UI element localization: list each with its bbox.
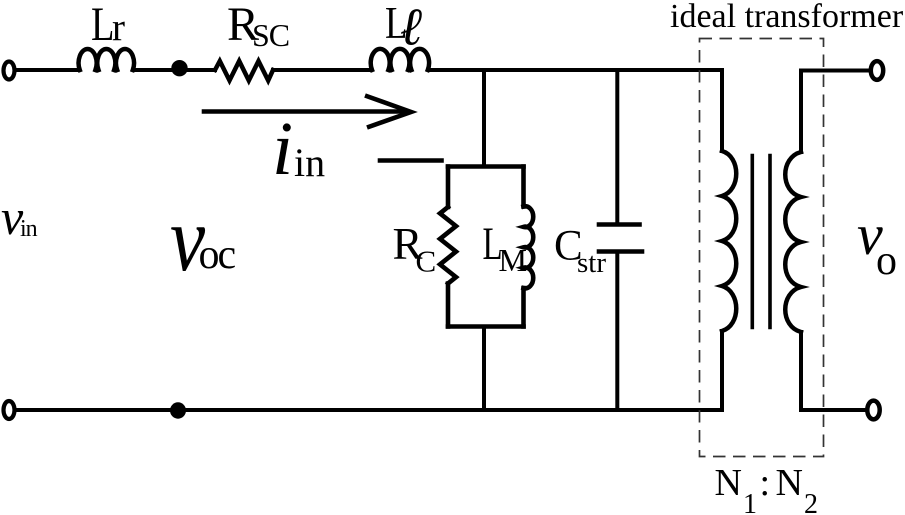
transformer core line left — [750, 156, 754, 328]
magnetizing box right edge lower — [521, 288, 526, 326]
transformer primary winding — [722, 151, 736, 331]
svg-text:str: str — [577, 247, 606, 279]
magnetizing box top edge — [448, 164, 524, 169]
svg-text:ℓ: ℓ — [400, 0, 422, 57]
resistor Rsc — [215, 61, 273, 81]
wire top: Lr to Rsc through node — [135, 68, 215, 72]
wire: transformer secondary top lead — [801, 71, 870, 153]
svg-text:in: in — [20, 216, 38, 242]
svg-text:C: C — [416, 244, 437, 279]
wire top: Rsc to Ll — [273, 68, 371, 72]
magnetizing box bottom edge — [448, 324, 524, 329]
ideal transformer dashed boundary — [700, 39, 824, 457]
svg-text:r: r — [112, 6, 125, 49]
svg-text:in: in — [294, 140, 325, 185]
inductor Lm (vertical coil) — [524, 206, 534, 288]
wire top: Ll to transformer primary — [430, 68, 723, 72]
svg-text:M: M — [499, 242, 527, 278]
inductor Lr — [79, 49, 134, 70]
svg-text:o: o — [876, 238, 897, 284]
wire: transformer primary bottom lead — [720, 331, 724, 410]
terminal input top-left — [4, 62, 15, 80]
capacitor Cstr top plate — [599, 222, 640, 227]
svg-text:N: N — [715, 462, 742, 504]
current arrow i_in head — [365, 96, 411, 128]
svg-text:N: N — [776, 462, 803, 504]
magnetizing box left edge upper — [446, 167, 451, 208]
inductor Ll (leakage) — [371, 49, 429, 70]
node junction top — [171, 60, 187, 76]
transformer core line right — [768, 156, 772, 328]
svg-text:1: 1 — [743, 489, 757, 515]
wire: top rail down to capacitor Cstr — [615, 70, 619, 222]
transformer secondary winding — [785, 152, 801, 332]
svg-text:oc: oc — [199, 232, 236, 278]
wire: transformer primary top lead — [720, 70, 724, 151]
stray line segment left of magnetizing box — [380, 158, 442, 163]
svg-text:ideal transformer: ideal transformer — [670, 0, 904, 35]
terminal input bottom-left — [4, 401, 15, 419]
magnetizing box right edge upper — [521, 167, 526, 207]
wire: magnetizing box down to bottom rail — [482, 327, 486, 411]
svg-text:2: 2 — [804, 489, 818, 515]
wire: transformer secondary bottom lead — [801, 332, 866, 410]
terminal output bottom-right — [867, 401, 879, 420]
node junction bottom — [170, 402, 186, 418]
magnetizing box left edge lower — [446, 284, 451, 327]
capacitor Cstr bottom plate — [599, 249, 642, 254]
svg-text::: : — [760, 462, 771, 504]
resistor Rc (vertical zigzag) — [440, 207, 456, 284]
wire: top rail down to magnetizing box — [482, 70, 486, 165]
wire top: input terminal to Lr — [16, 68, 80, 72]
svg-text:i: i — [272, 107, 293, 191]
current arrow i_in shaft — [204, 109, 404, 114]
svg-text:L: L — [91, 0, 114, 51]
svg-text:SC: SC — [252, 17, 289, 53]
wire bottom rail — [16, 408, 723, 412]
terminal output top-right — [871, 61, 883, 80]
wire: capacitor Cstr down to bottom rail — [615, 254, 619, 410]
